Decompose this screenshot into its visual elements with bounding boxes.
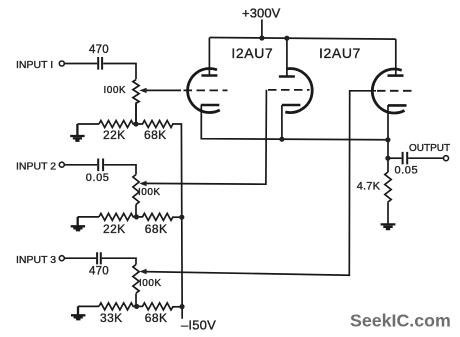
resistor 22K row2 — [99, 213, 136, 220]
resistor 68K row2 — [136, 213, 173, 220]
junction 68K row2 on -150V line — [179, 215, 184, 220]
arrow wiper R3 — [139, 269, 146, 274]
potentiometer R1 100K vertical — [133, 80, 139, 124]
resistor 33K row3 — [99, 303, 136, 310]
wire cap C1 to pot R1 top — [103, 64, 136, 80]
tube V2 plate bar — [279, 75, 295, 78]
wire cathode bus from V1 cathode to V3 cathode — [201, 105, 387, 140]
svg-text:470: 470 — [89, 44, 109, 56]
svg-text:INPUT I: INPUT I — [16, 59, 53, 71]
junction pot R3 bottom node — [134, 304, 139, 309]
capacitor C2 0.05 plates — [98, 159, 103, 172]
potentiometer R2 100K vertical — [133, 175, 139, 205]
svg-text:I2AU7: I2AU7 — [319, 45, 361, 61]
capacitor C1 470 plates — [98, 57, 102, 70]
resistor 4.7K vertical — [385, 172, 391, 202]
junction V2 cathode on bus — [279, 137, 284, 142]
svg-text:68K: 68K — [144, 128, 167, 142]
arrow wiper R2 — [139, 181, 146, 186]
wire V1 plate lead — [208, 38, 210, 76]
arrow wiper R1 — [139, 88, 146, 93]
tube V3 envelope — [372, 69, 404, 113]
capacitor C4 0.05 output plates — [403, 152, 408, 165]
wire cap C2 to pot R2 top — [104, 165, 136, 175]
junction V3 cathode on bus — [385, 137, 390, 142]
svg-text:0.05: 0.05 — [395, 165, 419, 177]
wire pot R1 bottom to node — [135, 104, 137, 124]
wire top B+ rail — [210, 38, 396, 40]
node +300V supply lead — [261, 20, 263, 39]
wire 68K row1 to -150V line — [172, 124, 182, 319]
wire V2 plate lead — [286, 38, 288, 76]
svg-text:I2AU7: I2AU7 — [231, 45, 273, 61]
svg-text:22K: 22K — [103, 128, 126, 142]
svg-text:I00K: I00K — [138, 187, 161, 198]
svg-text:I00K: I00K — [139, 278, 162, 289]
svg-text:33K: 33K — [100, 311, 123, 325]
tube V3 cathode bar — [388, 104, 407, 107]
wire V1 grid to pot R1 wiper — [145, 89, 182, 91]
capacitor C3 470 plates — [97, 252, 101, 264]
tube V2 envelope — [285, 69, 312, 113]
ground row1 — [70, 124, 84, 141]
svg-text:–I50V: –I50V — [181, 318, 216, 333]
ground under 4.7K — [381, 224, 396, 229]
wire ground to 33K row3 — [78, 305, 99, 307]
junction 68K row3 on -150V line — [179, 304, 184, 309]
svg-text:I00K: I00K — [104, 85, 127, 96]
wire input 2 to cap C2 — [64, 164, 97, 166]
junction +300V on rail — [259, 35, 264, 40]
svg-text:470: 470 — [89, 266, 109, 278]
svg-text:68K: 68K — [145, 311, 168, 325]
wire V2 grid down and over to pot R2 wiper — [145, 90, 267, 184]
wire ground to 22K row2 — [78, 216, 99, 218]
tube V1 plate bar — [201, 74, 217, 77]
resistor 68K row1 — [136, 121, 173, 128]
wire input 3 to cap C3 — [64, 257, 96, 259]
wire pot R3 bottom to node — [135, 294, 137, 307]
svg-text:INPUT 3: INPUT 3 — [16, 254, 56, 266]
svg-text:0.05: 0.05 — [86, 172, 110, 184]
tube V1 envelope — [188, 69, 220, 113]
svg-text:INPUT 2: INPUT 2 — [16, 160, 56, 172]
svg-text:+300V: +300V — [242, 6, 281, 21]
svg-text:OUTPUT: OUTPUT — [409, 143, 450, 154]
wire V3 cathode lead down to 4.7K — [387, 105, 389, 172]
tube V1 grid dashes — [184, 89, 228, 91]
wire cap C3 to pot R3 top — [102, 258, 136, 264]
wire 68K row2 to -150V line — [172, 216, 182, 218]
terminal input 2 — [59, 162, 64, 167]
tube V2 grid dashes — [268, 89, 310, 91]
wire V3 grid down and over to pot R3 wiper — [145, 91, 377, 275]
wire pot R2 bottom to node — [135, 205, 137, 217]
wire V2 cathode lead — [281, 105, 283, 140]
tube V3 grid dashes — [377, 90, 412, 92]
svg-text:SeekIC.com: SeekIC.com — [350, 311, 451, 331]
svg-text:22K: 22K — [103, 222, 126, 236]
resistor 68K row3 — [136, 303, 173, 310]
tube V2 cathode bar — [282, 104, 301, 107]
junction pot R2 bottom node — [134, 214, 139, 219]
resistor 22K row1 — [99, 121, 136, 128]
svg-text:68K: 68K — [145, 222, 168, 236]
wire output node to coupling cap — [388, 157, 402, 159]
wire 68K row3 to -150V line — [172, 306, 182, 308]
terminal input 3 — [59, 256, 64, 261]
tube V3 plate bar — [388, 74, 404, 77]
tube V1 cathode bar — [201, 104, 220, 107]
svg-text:4.7K: 4.7K — [357, 181, 381, 193]
junction V2 plate on rail — [284, 36, 289, 41]
wire V3 plate lead — [395, 39, 397, 76]
terminal input 1 — [59, 61, 64, 66]
wire input 1 to cap C1 — [64, 63, 97, 65]
ground row2 — [71, 217, 85, 230]
wire ground to 22K row1 — [77, 123, 99, 125]
wire output cap to terminal — [408, 157, 444, 159]
wire 4.7K to ground — [387, 202, 389, 223]
junction output tap — [385, 156, 390, 161]
potentiometer R3 100K vertical — [133, 265, 139, 294]
junction pot R1 bottom node — [133, 121, 138, 126]
ground row3 — [71, 306, 85, 319]
terminal output — [444, 156, 449, 161]
